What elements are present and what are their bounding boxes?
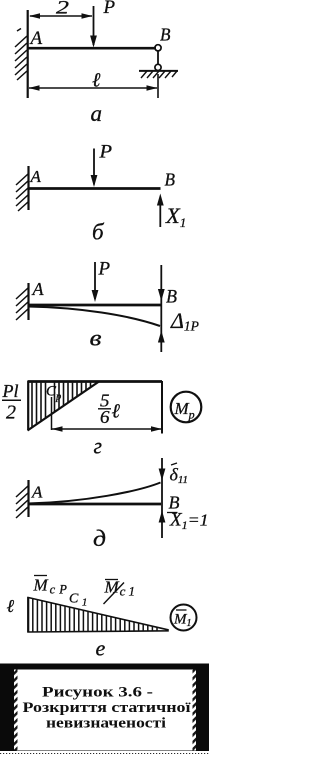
svg-text:P: P xyxy=(98,259,111,280)
svg-text:A: A xyxy=(29,28,43,49)
svg-text:6: 6 xyxy=(100,407,110,427)
svg-text:A: A xyxy=(30,167,42,186)
svg-text:б: б xyxy=(92,220,105,245)
svg-text:A: A xyxy=(32,279,45,299)
svg-text:A: A xyxy=(31,483,43,502)
svg-text:невизначеності: невизначеності xyxy=(46,716,166,732)
svg-text:а: а xyxy=(91,101,103,126)
svg-text:в: в xyxy=(90,326,102,351)
svg-text:B: B xyxy=(160,25,171,45)
svg-text:B: B xyxy=(165,170,176,190)
svg-text:е: е xyxy=(96,636,106,661)
svg-text:ℓ: ℓ xyxy=(112,401,121,423)
svg-text:2: 2 xyxy=(56,0,70,19)
svg-text:ℓ: ℓ xyxy=(92,70,101,92)
svg-text:P: P xyxy=(98,142,112,163)
svg-text:B: B xyxy=(166,287,177,308)
svg-text:г: г xyxy=(94,434,103,459)
svg-text:Рисунок 3.6 -: Рисунок 3.6 - xyxy=(42,685,153,701)
svg-text:2: 2 xyxy=(6,402,16,424)
svg-text:Pl: Pl xyxy=(2,381,19,401)
svg-text:д: д xyxy=(93,526,106,551)
svg-text:Розкриття статичної: Розкриття статичної xyxy=(23,700,192,716)
svg-text:ℓ: ℓ xyxy=(7,596,15,616)
svg-text:P: P xyxy=(103,0,116,18)
